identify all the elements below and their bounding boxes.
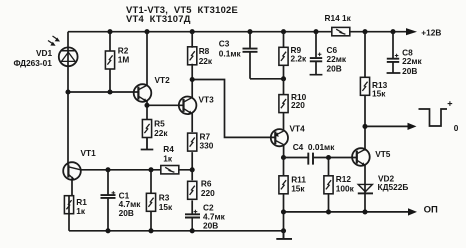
header text part numbers [126,4,238,24]
transistor VT3 [179,94,214,114]
node top rail junction dots [107,29,395,34]
svg-text:1к: 1к [76,206,86,216]
wire OP output line [281,209,409,230]
svg-text:0.1мк: 0.1мк [219,49,242,59]
svg-text:20В: 20В [402,66,417,76]
svg-text:VT1: VT1 [81,148,97,158]
resistor R8 [188,32,213,98]
svg-text:+12В: +12В [421,28,441,38]
svg-text:ФД263-01: ФД263-01 [14,58,53,68]
svg-text:15к: 15к [291,183,305,193]
transistor VT1 [63,148,96,181]
svg-text:R5: R5 [154,118,165,128]
resistor R12 [324,158,355,212]
resistor R9 [279,32,307,79]
svg-text:1к: 1к [163,154,173,164]
svg-text:ОП: ОП [424,205,438,216]
capacitor C4 [284,142,357,164]
svg-text:VT4 КТ3107Д: VT4 КТ3107Д [126,13,191,24]
wire VT2 emitter node to VT3 base [144,101,183,120]
wire VT2 collector to rail [146,32,148,85]
svg-text:22к: 22к [154,128,168,138]
svg-text:220: 220 [291,100,305,110]
resistor R4 [161,144,179,174]
resistor R2 [105,32,129,92]
svg-text:VT5: VT5 [375,149,391,159]
wire +12V top rail [68,31,407,33]
resistor R5 [142,118,168,138]
node VT3 collector junction, wire to VT4 base [190,77,276,137]
capacitor C1 (electrolytic) [101,170,142,231]
svg-text:R8: R8 [199,46,210,56]
resistor R14 (in top rail) [325,13,352,36]
pulse waveform symbol [419,101,459,133]
resistor R1 [64,180,87,216]
photodiode VD1 [14,32,78,92]
svg-text:C4 0.01мк: C4 0.01мк [293,142,336,152]
diode VD2 [358,165,409,212]
node C4/R12 junction [326,155,331,160]
resistor R7 [188,113,214,169]
svg-text:22к: 22к [199,56,213,66]
svg-text:КД522Б: КД522Б [378,182,409,192]
svg-text:20В: 20В [203,221,218,231]
svg-text:C3: C3 [219,39,230,49]
+12B arrow terminal [406,28,441,38]
capacitor C2 (electrolytic) [185,202,226,230]
svg-text:20В: 20В [119,208,134,218]
svg-text:VD1: VD1 [36,48,53,58]
resistor R3 [146,170,173,231]
svg-text:2.2к: 2.2к [291,53,308,63]
resistor R11 [279,158,306,212]
svg-text:R4: R4 [163,144,174,154]
ground main [276,231,292,239]
transistor VT2 [134,75,170,102]
svg-text:R14 1к: R14 1к [325,13,352,23]
OP arrow terminal [408,205,438,216]
capacitor C6 (electrolytic) with ground [310,32,347,75]
wire emitter bus VT1 to R7 foot [81,167,195,172]
svg-text:22мк: 22мк [402,56,422,66]
svg-text:VT2: VT2 [155,75,171,85]
wire VT1 emitter column to bottom rail [68,214,70,231]
svg-text:220: 220 [201,188,215,198]
svg-text:100к: 100к [336,183,355,193]
capacitor C8 (electrolytic) with ground [387,32,423,76]
node R9/R10/C3 junction [281,76,286,81]
resistor R10 [279,79,307,131]
svg-text:330: 330 [200,141,214,151]
svg-text:0: 0 [454,123,459,133]
ground below R5 [141,138,154,150]
transistor VT5 [352,148,391,166]
wire VD1/R2 node down to VT1 base [67,92,69,165]
node VT5 collector junction / pulse output arrow [362,123,416,130]
svg-text:VT4: VT4 [290,124,306,134]
capacitor C3 [219,32,284,79]
svg-text:15к: 15к [159,202,173,212]
node VT4 emitter junction [281,145,286,160]
resistor R13 [360,32,387,151]
node photodiode junction [65,89,138,94]
svg-text:VT3: VT3 [199,94,215,104]
svg-text:20В: 20В [327,64,342,74]
resistor R6 [188,170,216,214]
transistor VT4 (PNP) [271,124,305,147]
svg-text:15к: 15к [372,89,386,99]
svg-text:1M: 1M [118,55,130,65]
wire bottom rail [69,228,286,233]
